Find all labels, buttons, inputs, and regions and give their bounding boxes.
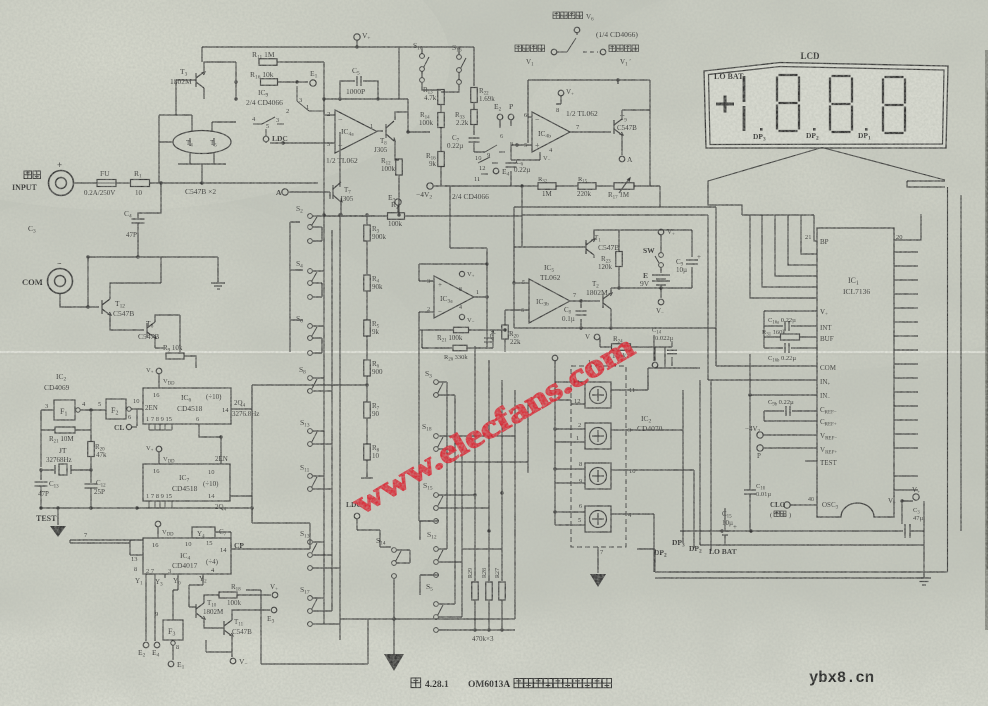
terminal E1 (310, 80, 316, 86)
wire T9 collector (622, 110, 650, 186)
wire pin20 hook (894, 214, 921, 240)
transistor T1 (586, 239, 595, 255)
dual transistor T4 T5 oval (173, 131, 231, 154)
switch S18 (434, 434, 443, 452)
XOR gate D (585, 506, 611, 532)
wire R6-R7 (366, 376, 368, 402)
wire CREF- pin (764, 410, 817, 412)
light patch left (0, 190, 460, 706)
terminal E3 top (395, 199, 401, 205)
wire loop left edge (514, 207, 522, 328)
XOR gate A (585, 382, 611, 408)
resistor R6 900 (364, 360, 371, 376)
resistor R16b 9k (438, 152, 445, 167)
inverter F3 (163, 620, 183, 640)
junction (579, 326, 582, 329)
wire matrix top feeds (252, 99, 367, 385)
capacitor C12 25P (85, 484, 98, 488)
scan dark right edge (985, 50, 988, 630)
wire S left loop (290, 222, 303, 352)
wire IC4b frame (528, 80, 650, 143)
wire VREF+ pin (763, 447, 817, 449)
wire trim left bus (554, 361, 556, 525)
wire T1 emitter (593, 255, 595, 258)
wire pin7 line (70, 540, 143, 543)
transistor T2 (603, 293, 612, 309)
wire T10 collector (204, 595, 219, 603)
wire C5 node bus (324, 98, 408, 100)
wire S10/S16 tops (399, 47, 474, 92)
wire V+ IC8 (157, 527, 159, 538)
LCD plus sign (716, 96, 734, 113)
resistor R32 1M (538, 183, 556, 190)
IC U8 CD4017 body (143, 538, 231, 574)
wire S14 net (380, 530, 410, 654)
wire IC4b pin5 (511, 144, 532, 146)
switch S13 (308, 429, 317, 447)
wire T3 emitter (203, 88, 205, 99)
wire V+ IC7 (158, 452, 160, 464)
terminal V+ IC6 (156, 368, 162, 374)
wire IC4a output (377, 130, 383, 132)
wire mesh links (447, 436, 528, 549)
junction (487, 529, 490, 532)
terminal E1 (168, 661, 174, 667)
junction (616, 78, 619, 81)
junction (397, 213, 400, 216)
wire osc rail to right (188, 507, 252, 509)
wire S8 row feed (324, 384, 340, 386)
wire T3 base (176, 80, 196, 115)
light patch bottom band (0, 590, 988, 706)
capacitor C8 0.1u (576, 311, 587, 315)
junction (553, 510, 556, 513)
junction (617, 286, 620, 289)
resistor R5 9k (364, 320, 371, 336)
ground TEST (50, 526, 66, 537)
wire SW net (660, 235, 662, 252)
junction (748, 393, 751, 396)
wire R13 to R14 (440, 105, 442, 113)
junction (579, 299, 582, 302)
junction (322, 97, 325, 100)
wire A to T7 (288, 132, 340, 199)
switch S6 contact c (308, 351, 313, 356)
transistor T12 (102, 299, 111, 315)
switch S5 contact a (434, 573, 439, 578)
wire long x654 (653, 335, 655, 361)
analog switch pins 9-10-12 (478, 145, 505, 174)
terminal V+ IC4b (558, 90, 564, 96)
op-amp IC3b (529, 279, 570, 323)
IC U1 right pin stubs (894, 252, 918, 490)
resistor R16 10k (261, 79, 278, 86)
inverter F2 (106, 399, 126, 419)
switch S4 contact c (308, 295, 313, 300)
wire matrix verticals right (475, 346, 528, 619)
terminal E2b (143, 642, 149, 648)
wire COM down (60, 294, 99, 307)
wire long x665 (664, 347, 666, 368)
capacitor C11 47u (484, 338, 492, 342)
wire pin13 left (70, 540, 143, 555)
wire CREF+ pin (764, 411, 817, 421)
terminal V+ IC3a (459, 271, 464, 276)
wire E2 P stubs (500, 120, 511, 128)
transistor T3 (196, 72, 205, 88)
wire bus y664 (261, 619, 368, 664)
ground bars right (917, 578, 931, 585)
decimal point DP2 (813, 128, 816, 131)
wire CL link (132, 426, 137, 428)
analog switch IC9 upper (297, 86, 324, 111)
wire to ground (217, 257, 219, 282)
wire T8 output right (408, 131, 430, 133)
wire IC4b pin6 (528, 80, 532, 117)
crystal JT (55, 464, 71, 475)
junction (485, 262, 488, 265)
wire R16 right (278, 81, 308, 83)
wire CP line (231, 542, 310, 549)
capacitor C5 1000P (357, 76, 361, 86)
IC U7 CD4518 body (143, 464, 230, 501)
wire V+ pin (764, 311, 817, 348)
junction (39, 506, 42, 509)
junction (553, 427, 556, 430)
wire IC3b pin6 (505, 310, 529, 325)
terminal E2 (497, 114, 503, 120)
junction (487, 628, 490, 631)
terminal V+ mid (594, 334, 600, 340)
resistor R27 (499, 582, 506, 600)
wire E3 stub (397, 205, 399, 212)
junction (89, 408, 92, 411)
terminal A right (619, 156, 625, 162)
wire IC3a output (474, 248, 487, 347)
wire IC6 bottom stubs (149, 424, 172, 430)
junction (355, 45, 358, 48)
inverter F2 output bubble (127, 407, 131, 411)
wire T1 base (514, 227, 586, 283)
wire TEST pin (805, 460, 817, 462)
switch S13b extra contact (308, 566, 313, 571)
wire F3 out (172, 645, 174, 660)
junction (86, 305, 89, 308)
op-amp IC4b (532, 112, 570, 152)
switch S17 extra contact (308, 622, 313, 627)
wire R33 down to C7 (473, 125, 475, 135)
wire F1 to F2 (80, 409, 106, 411)
resistor R21 10M (55, 427, 75, 433)
wire x419 down (419, 330, 433, 521)
label output signal (CJK) (609, 45, 639, 52)
op-amp IC3a (434, 276, 474, 318)
wire R1 to node (150, 182, 318, 184)
wire trim out 3 (611, 430, 683, 543)
node V- dot (900, 499, 903, 502)
junction (520, 184, 523, 187)
wire R16b down (434, 167, 450, 186)
switch S3 (434, 380, 443, 398)
wire C5 loop (340, 81, 378, 99)
junction (135, 506, 138, 509)
junction (749, 529, 752, 532)
wire S column2 stubs (420, 382, 475, 630)
capacitor C10 0.01u (744, 490, 756, 494)
wire V+ top bus (202, 40, 399, 99)
junction (322, 213, 325, 216)
wire C15 net (724, 508, 726, 545)
wire bus y257 (88, 256, 218, 258)
resistor R4 90k (364, 275, 371, 291)
wire x252 vertical (252, 385, 310, 542)
watermark www.elecfans.com (346, 327, 640, 521)
wire R12 down (398, 175, 400, 215)
light patch top-left corner (0, 0, 450, 210)
IC U6 CD4518 body (143, 388, 231, 424)
junction (485, 295, 488, 298)
wire R22 to R33 (473, 103, 475, 110)
terminal -4V2 (757, 432, 763, 438)
junction (39, 468, 42, 471)
wire bus y619 (340, 618, 394, 620)
resistor R20 22k (502, 325, 509, 339)
terminal V+ top (354, 34, 360, 40)
wire R26 rail (422, 330, 493, 348)
junction (376, 97, 379, 100)
resistor R13 4.7k (438, 90, 445, 105)
light patch top right (510, 0, 988, 370)
wire T6 collector (155, 315, 180, 352)
wire trim out 11 (611, 368, 665, 390)
switch SW contacts (659, 253, 664, 258)
terminal A left (282, 189, 288, 195)
wire T12 collector (110, 257, 161, 299)
wire funnel right inner (960, 195, 962, 531)
switch S15 (434, 493, 443, 511)
wire F2 out (131, 409, 143, 426)
resistor R28 (486, 582, 493, 600)
wire input to fuse (74, 182, 97, 184)
junction (392, 617, 395, 620)
shade patch center (210, 100, 650, 400)
terminal V+ IC8 (155, 521, 161, 527)
switch S4 (308, 269, 317, 286)
wire trim pin7 ground (597, 547, 599, 573)
junction (234, 80, 237, 83)
junction (500, 628, 503, 631)
wire bus y572 (637, 549, 948, 572)
wire COM pin (716, 365, 817, 367)
crease line (0, 351, 988, 353)
junction (250, 506, 253, 509)
resistor R2 100k (388, 213, 405, 220)
resistor R3 900k (364, 225, 371, 241)
wire R14 down (440, 128, 442, 152)
wire F3 in (173, 590, 178, 620)
wire R4-R5 (366, 291, 368, 320)
junction (219, 435, 222, 438)
wire oval emitters down (178, 153, 226, 183)
terminal V+ IC7 (156, 446, 162, 452)
wire left bus down (87, 257, 89, 307)
LCD digit 8 (a) (777, 75, 799, 131)
switch S5 contact b (434, 628, 439, 633)
wire bus y545 (700, 544, 924, 546)
switch S2 contact c (308, 239, 313, 244)
resistor R1 (131, 180, 150, 187)
wire x236 vertical (235, 62, 237, 99)
junction (512, 281, 515, 284)
ground (211, 283, 225, 289)
inverter F3 output bubble (171, 641, 175, 645)
junction (503, 328, 506, 331)
switch S10 extra contact (420, 78, 425, 83)
wire R24 right (631, 347, 655, 361)
wire matrix vertical x324 (323, 215, 325, 624)
wire T2 collector emitter (610, 288, 612, 318)
wire battery to node (660, 285, 662, 298)
terminal P (757, 445, 763, 451)
wire C13 down (40, 486, 42, 508)
wire bus y578 (655, 577, 924, 579)
wire cap C14 net (655, 341, 672, 347)
resistor R8 10 (364, 444, 371, 460)
junction (136, 255, 139, 258)
wire R5-R6 (366, 336, 368, 360)
wire R18 to V+ (237, 594, 271, 596)
wire R8 bottom (361, 460, 373, 478)
wire T3 collector up (204, 62, 236, 72)
wire T1 collector (594, 230, 619, 252)
junction (500, 491, 503, 494)
wire R2 line (324, 215, 522, 217)
terminal V- bat (658, 299, 664, 305)
wire T8 to R12 (395, 99, 408, 160)
wire trim inputs (555, 382, 585, 525)
terminal P top (508, 114, 514, 120)
resistor R15 220k (578, 183, 596, 190)
wire IC6 2Q4 out (231, 385, 252, 409)
battery E 9V (652, 275, 670, 285)
wire INT pin (764, 325, 817, 327)
wire CLO to OSC3 (790, 504, 817, 506)
transistor T6 (147, 322, 156, 338)
label input (CJK) (24, 171, 41, 179)
terminal CL (126, 424, 131, 429)
switch S16 extra contact (457, 80, 462, 85)
resistor R9 10k (166, 353, 184, 359)
wire loop second (522, 215, 708, 380)
dashed box CD4070 (571, 366, 626, 547)
wire loop top (514, 207, 716, 366)
wire IC7 bottom stubs (149, 501, 172, 508)
capacitor C7 0.22u (469, 138, 480, 142)
wire x515 bottom (394, 618, 515, 620)
wire row left (514, 186, 522, 215)
wire SW to battery (660, 267, 662, 273)
terminal LDC bot (354, 513, 360, 519)
LCD digit 8 (c) (883, 77, 905, 133)
junction (89, 506, 92, 509)
wire V+ mid to R24 (600, 337, 611, 347)
wire AZ pin (764, 347, 817, 349)
terminal CLO (784, 502, 790, 508)
wire F1 input net (41, 410, 91, 430)
terminal V- bot (230, 658, 236, 664)
fuse FU (97, 180, 116, 187)
wire oval right top (212, 122, 236, 131)
wire IC4b out (570, 131, 611, 133)
wire dash to Vo (583, 51, 598, 53)
junction (56, 506, 59, 509)
inverter F1 output bubble (76, 408, 80, 412)
LCD digit 8 (b) (830, 76, 852, 132)
LCD inner frame (709, 67, 945, 145)
wire matrix vertical x340 (339, 215, 341, 640)
wire funnel segment bus top (742, 214, 814, 216)
analog switch IC9 lower (253, 117, 284, 136)
wire T11 emitter (206, 636, 232, 657)
capacitor C14 0.022u (667, 350, 677, 354)
wire IN+ pin (708, 379, 817, 381)
wire osc bottom rail (41, 507, 188, 509)
wire S column stubs (313, 216, 375, 624)
wire matrix vertical x447 (446, 382, 448, 549)
switch S11 (308, 474, 317, 492)
transistor T11 (224, 620, 233, 636)
wire IC3a pin3 loop (419, 264, 487, 281)
wire V+ IC6 (158, 374, 160, 388)
wire VREF- pin (763, 434, 817, 436)
wire IC3b out (570, 300, 600, 302)
wire T7 down (340, 202, 342, 215)
resistor R23 120k (616, 252, 623, 267)
wire R20 down (504, 339, 506, 352)
junction (159, 181, 162, 184)
capacitor C4 (132, 219, 145, 223)
resistor R21b 100k (454, 327, 469, 333)
wire Y4 to CP (215, 532, 231, 549)
switch S17 (308, 596, 317, 614)
wire IC7 2Q4 out (230, 496, 252, 523)
transistor T9 (614, 119, 623, 135)
wire R27-29 bottoms (470, 600, 515, 630)
terminal COM jack (48, 269, 73, 294)
resistor R7 90 (364, 402, 371, 418)
resistor R26 330k box2 (453, 345, 467, 351)
switch S2 (308, 214, 317, 230)
wire crystal leads (41, 457, 91, 483)
capacitor C15 10u (719, 531, 731, 535)
switch S14 extra contact (392, 574, 397, 579)
wire funnel right slant (822, 148, 948, 573)
terminal V6 (574, 27, 580, 33)
wire C7 down (474, 143, 485, 152)
wire IC6 pin6 to IC7 2EN (199, 424, 221, 464)
wire T9 emitter (621, 135, 623, 155)
switch S10 (420, 54, 429, 72)
IC U1 ICL7136 body (817, 228, 894, 517)
resistor R22 1.69k (471, 88, 478, 103)
terminal LDC (263, 136, 269, 142)
switch control arm (557, 33, 577, 52)
wire C9 net (619, 230, 692, 288)
wire matrix vertical x462 (461, 449, 463, 617)
transistor T7 J305 (333, 182, 342, 202)
resistor R14 100k (438, 113, 445, 128)
junction (720, 529, 723, 532)
